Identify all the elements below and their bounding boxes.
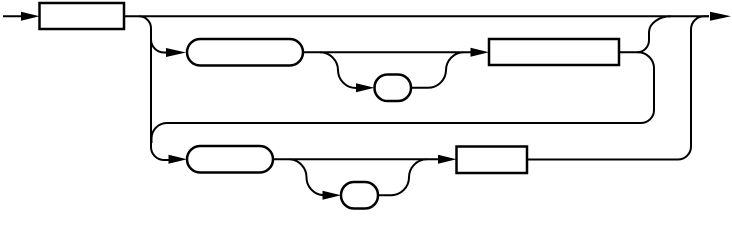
exit arrowhead (710, 12, 731, 21)
wire S1 back up to row 2 line (411, 52, 464, 88)
box B2 (489, 39, 619, 65)
oval S2 (341, 182, 378, 209)
arrowhead into oval O1 (166, 48, 186, 57)
arrowhead into oval O2 (169, 155, 188, 164)
wire B3 exit up to main line (527, 16, 709, 159)
detour wire down to oval S1 (320, 52, 357, 88)
wire O1 to arrow (303, 51, 471, 53)
oval O1 (187, 39, 303, 66)
arrowhead into oval S2 (323, 191, 342, 200)
return wire B2 down and back left (152, 52, 655, 143)
entry arrowhead (21, 12, 40, 21)
oval S1 (375, 75, 412, 102)
branch wire down from main line (139, 16, 169, 160)
wire B2 exit (619, 51, 638, 53)
wire O2 to arrow (273, 158, 438, 160)
box B1 (40, 3, 125, 29)
branch wire to row 2 (151, 40, 167, 53)
detour wire down to oval S2 (290, 159, 324, 195)
arrowhead into box B3 (438, 155, 457, 164)
wire B2 up to main line (637, 16, 671, 52)
main top wire (124, 15, 709, 17)
arrowhead into oval S1 (356, 83, 375, 92)
arrowhead into box B2 (471, 48, 490, 57)
wire S2 back up to row 3 line (378, 159, 427, 195)
entry wire (3, 15, 23, 17)
box B3 (457, 147, 528, 174)
oval O2 (187, 146, 273, 173)
